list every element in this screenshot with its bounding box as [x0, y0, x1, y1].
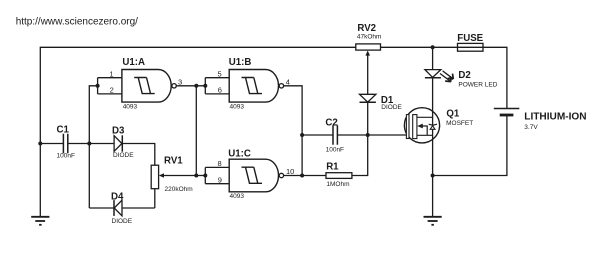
svg-text:4093: 4093	[230, 193, 245, 200]
svg-text:5: 5	[218, 69, 222, 78]
wire: U1:B output pin 4 down to R1 row	[284, 86, 303, 176]
svg-text:DIODE: DIODE	[112, 218, 133, 225]
wire: node A vertical pin3 to wiper row	[195, 86, 197, 176]
wire: U1:C input bracket pins 8,9	[205, 167, 229, 183]
svg-text:3: 3	[178, 78, 182, 87]
wire: RV1 bottom to D4 row	[89, 189, 155, 208]
svg-text:3.7V: 3.7V	[524, 124, 538, 131]
NAND gate U1:A	[122, 70, 176, 103]
svg-text:FUSE: FUSE	[457, 33, 483, 44]
svg-text:100nF: 100nF	[326, 146, 344, 153]
capacitor C2	[333, 125, 337, 145]
battery LITHIUM-ION	[494, 109, 520, 116]
MOSFET Q1	[404, 108, 439, 143]
svg-text:Q1: Q1	[446, 109, 460, 120]
svg-text:DIODE: DIODE	[113, 152, 134, 159]
NAND gate U1:C	[229, 159, 283, 192]
wire: battery bottom to MOSFET source junction	[433, 116, 507, 176]
svg-text:1: 1	[109, 69, 113, 78]
svg-text:POWER LED: POWER LED	[458, 81, 497, 88]
svg-text:DIODE: DIODE	[381, 104, 402, 111]
diode D1	[360, 94, 376, 102]
wire: C1 horizontal	[40, 143, 89, 145]
wire: vertical C1-right/D3/D4 with jog to U1:A inputs	[89, 86, 97, 208]
svg-text:4: 4	[286, 78, 290, 87]
LED D2	[425, 70, 453, 82]
svg-text:1MOhm: 1MOhm	[326, 181, 349, 188]
svg-text:100nF: 100nF	[57, 153, 75, 160]
wire: U1:C output pin 10 / R1 row	[284, 135, 368, 176]
svg-text:6: 6	[218, 86, 222, 95]
svg-text:C1: C1	[57, 125, 70, 136]
svg-text:RV2: RV2	[357, 23, 376, 34]
svg-text:D2: D2	[458, 70, 470, 81]
potentiometer RV2	[356, 44, 381, 56]
svg-text:D3: D3	[112, 126, 125, 137]
ground (right)	[424, 217, 442, 225]
svg-text:9: 9	[218, 175, 222, 184]
svg-text:MOSFET: MOSFET	[446, 120, 473, 127]
wire: RV2 wiper down through D1	[367, 55, 369, 135]
fuse FUSE	[458, 43, 484, 51]
svg-text:47kOhm: 47kOhm	[357, 34, 382, 41]
svg-text:R1: R1	[326, 162, 339, 173]
svg-text:C2: C2	[325, 118, 337, 129]
wire: RV2 right to battery top via FUSE	[381, 47, 507, 108]
wire: C2 horizontal	[302, 134, 368, 136]
svg-text:U1:C: U1:C	[228, 148, 251, 159]
diode D4	[114, 200, 122, 216]
wire: D3 row to RV1 top	[89, 144, 155, 166]
diode D3	[114, 135, 122, 151]
svg-text:10: 10	[286, 167, 294, 176]
svg-text:2: 2	[110, 86, 114, 95]
wire: U1:A input bracket pins 1,2	[98, 78, 122, 94]
potentiometer RV1	[151, 165, 164, 189]
svg-text:RV1: RV1	[164, 156, 183, 167]
wire: U1:B input bracket pins 5,6	[205, 78, 229, 94]
svg-text:U1:B: U1:B	[229, 57, 252, 68]
svg-text:LITHIUM-ION: LITHIUM-ION	[524, 112, 586, 123]
svg-text:4093: 4093	[123, 104, 138, 111]
resistor R1	[326, 173, 352, 179]
wire: U1:A output pin 3 to U1:B bracket	[176, 85, 205, 87]
wire: C2 node to MOSFET gate	[368, 134, 407, 136]
capacitor C1	[63, 134, 67, 154]
NAND gate U1:B	[229, 70, 283, 103]
wire: LED/drain vertical and ground stem	[432, 47, 434, 216]
svg-text:http://www.sciencezero.org/: http://www.sciencezero.org/	[16, 16, 138, 27]
svg-text:4093: 4093	[230, 104, 245, 111]
svg-text:220kOhm: 220kOhm	[165, 186, 193, 193]
svg-text:8: 8	[218, 159, 222, 168]
wire: RV1 wiper to U1:C bracket	[163, 175, 205, 177]
svg-text:U1:A: U1:A	[122, 57, 145, 68]
wire: left rail + top rail to RV2 left	[40, 47, 356, 216]
svg-text:D4: D4	[111, 191, 124, 202]
ground (left)	[31, 217, 49, 225]
